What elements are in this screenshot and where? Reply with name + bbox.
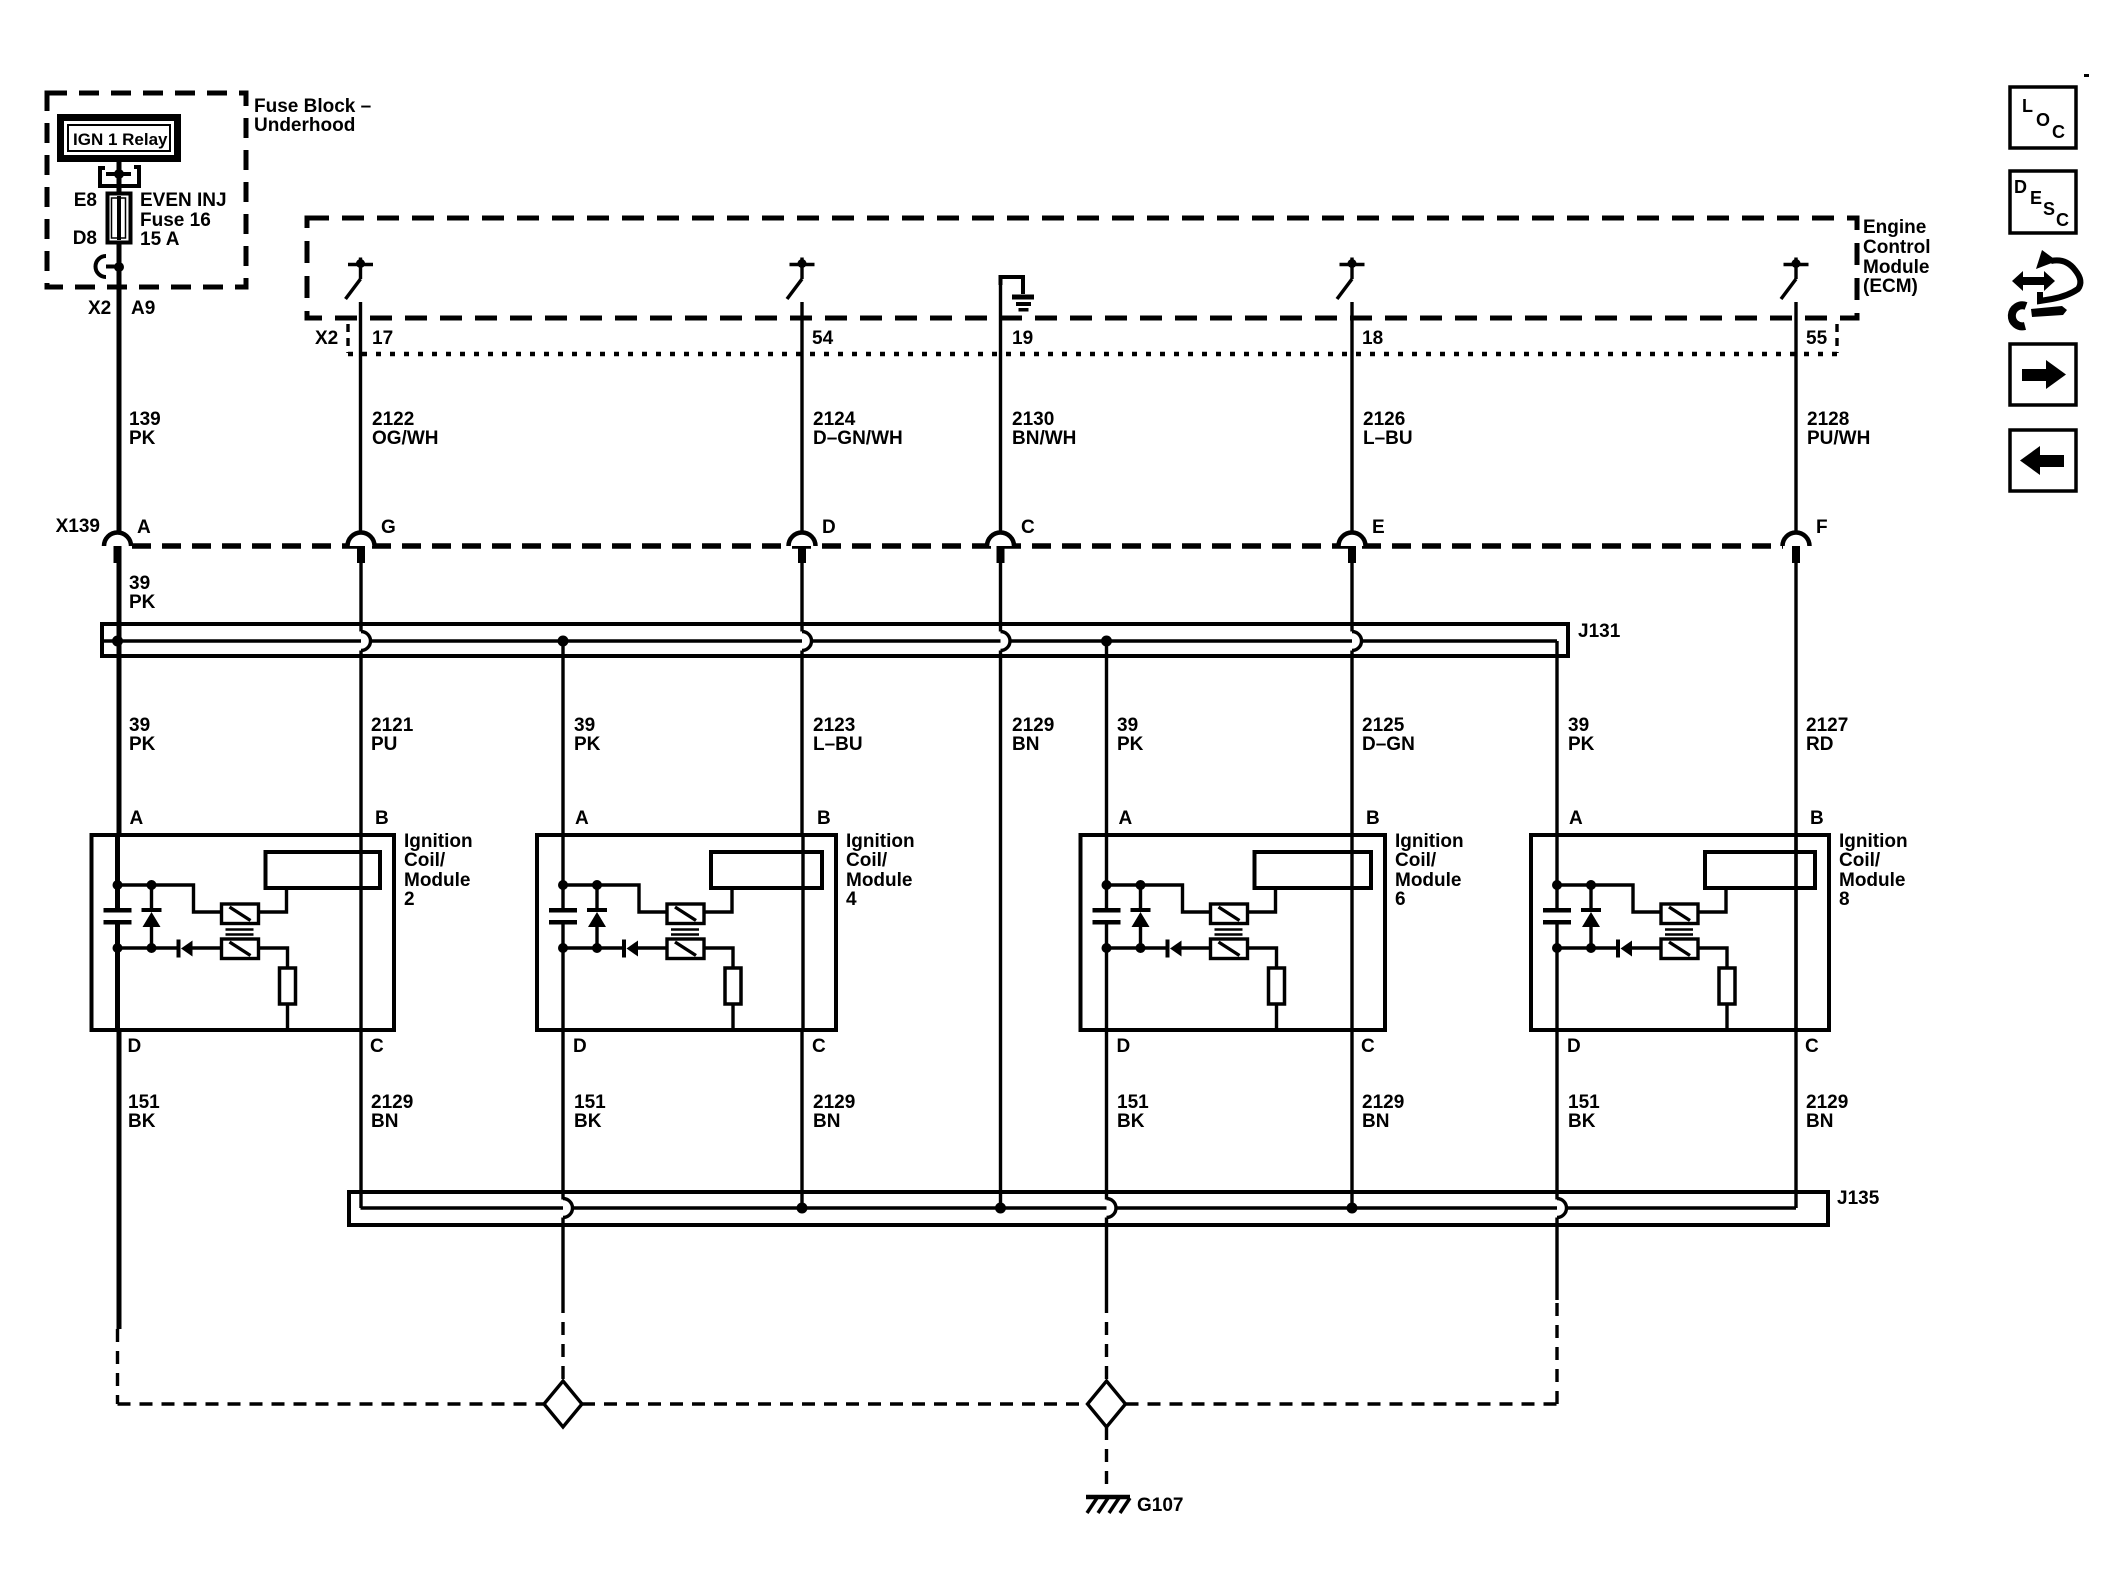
label pin A module 2: [130, 808, 144, 829]
junction dot module 2 node2b: [147, 943, 157, 953]
label pin C module 8: [1805, 1036, 1819, 1057]
driver block lower module 6: [1211, 939, 1248, 959]
svg-text:PK: PK: [1117, 734, 1144, 755]
label 2130 BN/WH: [1012, 409, 1076, 449]
junction dot fuse output: [114, 262, 124, 272]
icon LOC letters: [2022, 96, 2065, 142]
wire resistor to case ground module 2: [286, 1004, 289, 1030]
label pin B module 8: [1810, 808, 1824, 829]
svg-text:Coil/: Coil/: [1839, 850, 1881, 871]
label 2124 D-GN/WH: [813, 409, 903, 449]
label pin B module 2: [375, 808, 389, 829]
svg-text:2129: 2129: [1806, 1092, 1848, 1113]
label pin D module 2: [128, 1036, 142, 1057]
driver block lower module 4: [667, 939, 704, 959]
driver block upper module 2: [222, 904, 259, 924]
wire relay box to pin bracket: [117, 160, 122, 176]
svg-text:55: 55: [1806, 328, 1828, 349]
svg-text:2: 2: [404, 889, 415, 910]
junction dot J131 module6 feed: [1101, 636, 1112, 647]
wire module 6 internal B+ node: [1107, 835, 1211, 912]
label pin 19: [1012, 328, 1033, 349]
svg-text:Module: Module: [1863, 257, 1930, 278]
capacitor C module 4: [549, 908, 577, 925]
svg-text:Control: Control: [1863, 237, 1931, 258]
label pin D module 8: [1567, 1036, 1581, 1057]
label 151 BK col1: [128, 1092, 160, 1132]
svg-text:17: 17: [372, 328, 393, 349]
wire fuse to terminal: [117, 242, 122, 267]
label 2127 RD: [1806, 715, 1848, 755]
relay pin bracket terminal: [100, 167, 139, 186]
ECM driver pin 18: [1337, 258, 1365, 300]
svg-text:A: A: [137, 517, 151, 538]
svg-text:BN: BN: [1806, 1111, 1833, 1132]
connector X139 pin F stub: [1792, 546, 1800, 563]
svg-text:151: 151: [128, 1092, 160, 1113]
icon next arrow: [2022, 360, 2066, 389]
svg-text:Coil/: Coil/: [1395, 850, 1437, 871]
svg-text:PK: PK: [129, 734, 156, 755]
relay K: IGN 1 Relay box: [61, 118, 178, 159]
label J131: [1578, 621, 1621, 642]
svg-text:L–BU: L–BU: [813, 734, 863, 755]
label E8: [74, 190, 97, 211]
wire module 6 ground node row: [1107, 924, 1211, 1030]
wire lower driver to resistor module 2: [259, 948, 288, 968]
capacitor C module 2: [104, 908, 132, 925]
svg-text:PK: PK: [1568, 734, 1595, 755]
svg-text:Underhood: Underhood: [254, 115, 355, 136]
wire relay to fuse: [117, 174, 122, 194]
zener diode module 2: [142, 885, 162, 948]
svg-text:BN: BN: [813, 1111, 840, 1132]
wire 2129 BN module8 C to J135: [1794, 1030, 1797, 1208]
driver block lower module 2: [222, 939, 259, 959]
label pin D: [822, 517, 836, 538]
svg-text:54: 54: [812, 328, 834, 349]
wire 139 PK fuse block to X139 pin A: [117, 267, 122, 547]
junction dot module 4 node1b: [592, 880, 602, 890]
junction dot module 6 node1b: [1136, 880, 1146, 890]
svg-text:X2: X2: [88, 298, 111, 319]
svg-text:18: 18: [1362, 328, 1383, 349]
label 151 BK col7: [1568, 1092, 1600, 1132]
label pin B module 4: [817, 808, 831, 829]
svg-text:X139: X139: [56, 516, 100, 537]
junction dot module 4 node2b: [592, 943, 602, 953]
svg-text:151: 151: [574, 1092, 606, 1113]
wire upper driver to coil module 6: [1248, 890, 1276, 912]
driver block upper module 4: [667, 904, 704, 924]
wire module 4 ground node row: [563, 924, 667, 1030]
diode D module 6: [1166, 940, 1182, 958]
svg-text:39: 39: [129, 573, 150, 594]
svg-text:2129: 2129: [1362, 1092, 1404, 1113]
label pin A module 8: [1569, 808, 1583, 829]
diode D module 8: [1616, 940, 1632, 958]
label X2 fuse block: [88, 298, 111, 319]
wire hop 151 module8 over J135: [1557, 1199, 1567, 1301]
svg-text:8: 8: [1839, 889, 1850, 910]
diode D module 2: [177, 940, 193, 958]
label 2122 OG/WH: [372, 409, 439, 449]
svg-text:L–BU: L–BU: [1363, 428, 1413, 449]
label J135: [1837, 1188, 1880, 1209]
svg-text:C: C: [1805, 1036, 1819, 1057]
ignition coil module 8 box: [1531, 835, 1829, 1030]
label pin A: [137, 517, 151, 538]
junction dot module 2 node1b: [147, 880, 157, 890]
driver block lower module 8: [1661, 939, 1698, 959]
fuse block - underhood dashed box: [47, 93, 246, 287]
label pin D module 6: [1117, 1036, 1131, 1057]
label pin 55: [1806, 328, 1828, 349]
svg-text:A: A: [575, 808, 589, 829]
junction dot J135 2129 col4: [797, 1203, 808, 1214]
svg-text:D: D: [2014, 177, 2027, 197]
ECM driver pin 17: [346, 258, 374, 300]
junction dot module 6 node2: [1102, 943, 1112, 953]
svg-text:15 A: 15 A: [140, 229, 180, 250]
label 2128 PU/WH: [1807, 409, 1870, 449]
wire 2128 PU/WH ECM55 to X139 F: [1794, 302, 1797, 547]
wire 151 BK module4 D to J135: [561, 1030, 564, 1200]
zener diode module 4: [587, 885, 607, 948]
svg-text:D: D: [1117, 1036, 1131, 1057]
wire module 2 internal B+ node: [118, 835, 222, 912]
svg-text:D–GN/WH: D–GN/WH: [813, 428, 903, 449]
svg-text:BK: BK: [1117, 1111, 1145, 1132]
svg-text:Coil/: Coil/: [404, 850, 446, 871]
wire 39 PK J131 to module4 A: [561, 641, 564, 835]
ECM dashed box: [307, 218, 1857, 318]
dashed wire module8 ground rise: [1555, 1300, 1558, 1404]
svg-text:G107: G107: [1137, 1495, 1183, 1516]
wire 2124 D-GN/WH ECM54 to X139 D: [800, 302, 803, 547]
svg-text:2129: 2129: [813, 1092, 855, 1113]
svg-text:IGN 1 Relay: IGN 1 Relay: [73, 130, 168, 149]
wire lower driver to resistor module 4: [704, 948, 733, 968]
svg-text:D: D: [1567, 1036, 1581, 1057]
resistor R module 6: [1269, 968, 1285, 1004]
dashed ground bus right segment: [1126, 1402, 1558, 1405]
label pin 18: [1362, 328, 1383, 349]
svg-text:2121: 2121: [371, 715, 414, 736]
svg-text:2129: 2129: [371, 1092, 413, 1113]
connector X139 pin G stub: [357, 546, 365, 563]
svg-text:D–GN: D–GN: [1362, 734, 1415, 755]
wire module 8 ground node row: [1557, 924, 1661, 1030]
svg-text:C: C: [1021, 517, 1035, 538]
ignition coil winding module 6: [1255, 852, 1372, 888]
wire 2129 BN module6 C to J135: [1350, 1030, 1353, 1208]
splice J135 middle line: [361, 1206, 1797, 1209]
svg-text:B: B: [375, 808, 389, 829]
driver block upper module 8: [1661, 904, 1698, 924]
svg-text:BN: BN: [371, 1111, 398, 1132]
wire hop 2124 over J131: [802, 632, 812, 836]
svg-text:PK: PK: [574, 734, 601, 755]
svg-text:Ignition: Ignition: [1395, 831, 1464, 852]
svg-text:151: 151: [1568, 1092, 1600, 1113]
label Ignition Coil Module 4: [846, 831, 915, 910]
resistor R module 8: [1719, 968, 1735, 1004]
fuse F16: EVEN INJ Fuse 16 15 A: [108, 194, 131, 243]
label 151 BK col5: [1117, 1092, 1149, 1132]
svg-text:139: 139: [129, 409, 161, 430]
icon prev arrow box: [2010, 430, 2076, 491]
ignition coil winding module 8: [1705, 852, 1815, 888]
label pin A module 6: [1119, 808, 1133, 829]
svg-text:Module: Module: [1839, 870, 1906, 891]
label EVEN INJ Fuse 16 15 A: [140, 190, 227, 250]
svg-text:2127: 2127: [1806, 715, 1848, 736]
svg-text:Ignition: Ignition: [404, 831, 473, 852]
label 2129 BN col4: [813, 1092, 855, 1132]
junction dot module 6 node1: [1102, 880, 1112, 890]
label pin B module 6: [1366, 808, 1380, 829]
driver block upper module 6: [1211, 904, 1248, 924]
label 2129 BN col2: [371, 1092, 413, 1132]
ignition coil module 4 box: [537, 835, 836, 1030]
svg-text:J131: J131: [1578, 621, 1621, 642]
wire module 2 ground node row: [118, 924, 222, 1030]
dashed ground bus middle segment: [582, 1402, 1088, 1405]
icon double arrow: [2012, 271, 2055, 291]
wire 2129 BN module4 C to J135: [800, 1030, 803, 1208]
junction dot module 8 node1b: [1586, 880, 1596, 890]
label pin G: [381, 517, 396, 538]
label 39 PK col1: [129, 715, 156, 755]
capacitor C module 6: [1093, 908, 1121, 925]
coupling bars module 4: [671, 930, 699, 935]
connector X139 pin E arc: [1339, 533, 1366, 547]
svg-text:Module: Module: [404, 870, 471, 891]
svg-text:2123: 2123: [813, 715, 855, 736]
svg-text:2128: 2128: [1807, 409, 1849, 430]
inline connector diamond left: [544, 1381, 582, 1427]
svg-text:PU/WH: PU/WH: [1807, 428, 1870, 449]
wire 151 BK module6 D to J135: [1105, 1030, 1108, 1200]
svg-text:Ignition: Ignition: [846, 831, 915, 852]
label X139: [56, 516, 100, 537]
label IGN 1 Relay: [73, 130, 168, 149]
svg-text:Coil/: Coil/: [846, 850, 888, 871]
connector X139 pin D stub: [798, 546, 806, 563]
diode D module 4: [622, 940, 638, 958]
label A9: [131, 298, 155, 319]
svg-text:F: F: [1816, 517, 1828, 538]
dashed wire to G107: [1105, 1427, 1108, 1492]
svg-text:PU: PU: [371, 734, 397, 755]
wire 151 BK module8 D to J135: [1555, 1030, 1558, 1200]
wire lower driver to resistor module 8: [1698, 948, 1727, 968]
wire upper driver to coil module 4: [704, 890, 732, 912]
svg-text:C: C: [370, 1036, 384, 1057]
svg-text:S: S: [2043, 199, 2055, 219]
label 2126 L-BU: [1363, 409, 1413, 449]
tiny print mark top right: [2084, 74, 2089, 77]
svg-text:2126: 2126: [1363, 409, 1405, 430]
icon next arrow box: [2010, 344, 2076, 405]
svg-text:C: C: [812, 1036, 826, 1057]
svg-text:Fuse Block –: Fuse Block –: [254, 96, 371, 117]
coupling bars module 6: [1215, 930, 1243, 935]
wire resistor to case ground module 8: [1725, 1004, 1728, 1030]
wire hop 151 module4 over J135: [563, 1199, 573, 1301]
wire 39 PK X139A to J131: [117, 560, 122, 641]
wire 2130/2129 X139C across J131: [999, 560, 1002, 632]
dashed wire module6 ground drop: [1105, 1300, 1108, 1381]
junction dot J131 module4 feed: [558, 636, 569, 647]
label Fuse Block - Underhood: [254, 96, 371, 136]
svg-text:19: 19: [1012, 328, 1033, 349]
wire 2128 X139F to module8 B: [1794, 560, 1797, 1030]
svg-text:G: G: [381, 517, 396, 538]
zener diode module 6: [1131, 885, 1151, 948]
connector X139 pin A arc: [104, 533, 131, 547]
label 39 PK col6: [1117, 715, 1144, 755]
label 2129 BN col8: [1806, 1092, 1848, 1132]
svg-text:Ignition: Ignition: [1839, 831, 1908, 852]
ignition coil module 2 box: [92, 835, 395, 1030]
svg-text:PK: PK: [129, 428, 156, 449]
svg-text:BK: BK: [574, 1111, 602, 1132]
wire module 8 internal B+ node: [1557, 835, 1661, 912]
svg-text:E8: E8: [74, 190, 97, 211]
capacitor C module 8: [1543, 908, 1571, 925]
wire 2130 BN/WH ECM19 to X139 C: [999, 277, 1002, 547]
wire 2126 X139E across J131: [1350, 560, 1353, 632]
zener diode module 8: [1581, 885, 1601, 948]
wire module 4 internal B+ node: [563, 835, 667, 912]
svg-text:E: E: [1372, 517, 1385, 538]
wire hop 151 module6 over J135: [1107, 1199, 1117, 1301]
connector X139 pin C stub: [997, 546, 1005, 563]
wire B through coil module 6: [1350, 835, 1353, 1030]
connector X139 pin C arc: [987, 533, 1014, 547]
ignition coil module 6 box: [1081, 835, 1386, 1030]
junction dot module 8 node2: [1552, 943, 1562, 953]
resistor R module 2: [280, 968, 296, 1004]
label pin C: [1021, 517, 1035, 538]
fuse output terminal hook: [96, 256, 119, 277]
svg-text:D: D: [822, 517, 836, 538]
svg-text:39: 39: [1568, 715, 1589, 736]
svg-text:2125: 2125: [1362, 715, 1405, 736]
svg-text:BN: BN: [1362, 1111, 1389, 1132]
svg-text:Module: Module: [1395, 870, 1462, 891]
svg-text:A: A: [130, 808, 144, 829]
svg-text:2124: 2124: [813, 409, 856, 430]
wire B through coil module 4: [801, 835, 804, 1030]
label 2121 PU: [371, 715, 414, 755]
connector X139 pin G arc: [348, 533, 375, 547]
label 2129 BN col6: [1362, 1092, 1404, 1132]
svg-text:Module: Module: [846, 870, 913, 891]
junction dot J135 2129 col6: [1347, 1203, 1358, 1214]
svg-text:OG/WH: OG/WH: [372, 428, 439, 449]
label G107: [1137, 1495, 1183, 1516]
label D8: [73, 228, 97, 249]
svg-text:O: O: [2036, 110, 2050, 130]
junction dot relay output: [114, 169, 124, 179]
label 39 PK: [129, 573, 156, 613]
wire 39 PK J131 to module8 A: [1555, 641, 1558, 835]
wire B through coil module 8: [1794, 835, 1797, 1030]
svg-text:A: A: [1119, 808, 1133, 829]
label 2123 L-BU: [813, 715, 863, 755]
svg-text:4: 4: [846, 889, 857, 910]
svg-text:39: 39: [574, 715, 595, 736]
icon LOC box: [2010, 87, 2076, 148]
label 2129 BN mid: [1012, 715, 1054, 755]
dashed wire module4 ground drop: [561, 1300, 564, 1381]
connector X139 pin A stub: [114, 546, 122, 563]
svg-text:C: C: [2052, 122, 2065, 142]
svg-text:X2: X2: [315, 328, 338, 349]
svg-text:2130: 2130: [1012, 409, 1054, 430]
svg-text:EVEN INJ: EVEN INJ: [140, 190, 227, 211]
label pin C module 2: [370, 1036, 384, 1057]
label 2125 D-GN: [1362, 715, 1415, 755]
inline connector diamond right: [1088, 1381, 1126, 1427]
wire upper driver to coil module 2: [259, 890, 287, 912]
wire 2122 OG/WH ECM17 to X139 G: [359, 302, 362, 547]
connector X139 pin D arc: [789, 533, 816, 547]
wire 2126 L-BU ECM18 to X139 E: [1350, 302, 1353, 547]
svg-text:BN: BN: [1012, 734, 1039, 755]
junction dot module 8 node2b: [1586, 943, 1596, 953]
svg-text:Fuse 16: Fuse 16: [140, 210, 211, 231]
label pin C module 6: [1361, 1036, 1375, 1057]
svg-text:E: E: [2030, 188, 2042, 208]
svg-text:2129: 2129: [1012, 715, 1054, 736]
label Engine Control Module (ECM): [1863, 217, 1931, 297]
label pin C module 4: [812, 1036, 826, 1057]
svg-text:151: 151: [1117, 1092, 1149, 1113]
label 39 PK col8: [1568, 715, 1595, 755]
wire B through coil module 2: [359, 835, 362, 1030]
icon schematic squiggle: [2036, 250, 2080, 301]
coupling bars module 8: [1665, 930, 1693, 935]
junction dot J135 2129 ECM: [995, 1203, 1006, 1214]
wire 2129 BN module2 C to J135: [359, 1030, 362, 1208]
wire resistor to case ground module 6: [1275, 1004, 1278, 1030]
svg-text:B: B: [1366, 808, 1380, 829]
svg-text:C: C: [1361, 1036, 1375, 1057]
wire hop 2122 over J131: [361, 632, 371, 836]
label Ignition Coil Module 2: [404, 831, 473, 910]
label pin F: [1816, 517, 1828, 538]
junction dot module 4 node2: [558, 943, 568, 953]
ground G107 symbol: [1086, 1497, 1130, 1513]
label Ignition Coil Module 8: [1839, 831, 1908, 910]
svg-text:L: L: [2022, 96, 2033, 116]
junction dot J131 at 39PK feed: [112, 636, 123, 647]
label pin D module 4: [573, 1036, 587, 1057]
connector X139 dashed line: [132, 543, 1783, 549]
svg-text:A9: A9: [131, 298, 155, 319]
svg-text:RD: RD: [1806, 734, 1833, 755]
svg-text:BN/WH: BN/WH: [1012, 428, 1076, 449]
svg-text:C: C: [2056, 210, 2069, 230]
wire lower driver to resistor module 6: [1248, 948, 1277, 968]
svg-text:A: A: [1569, 808, 1583, 829]
icon DESC letters: [2014, 177, 2069, 230]
label X2 ECM: [315, 328, 338, 349]
